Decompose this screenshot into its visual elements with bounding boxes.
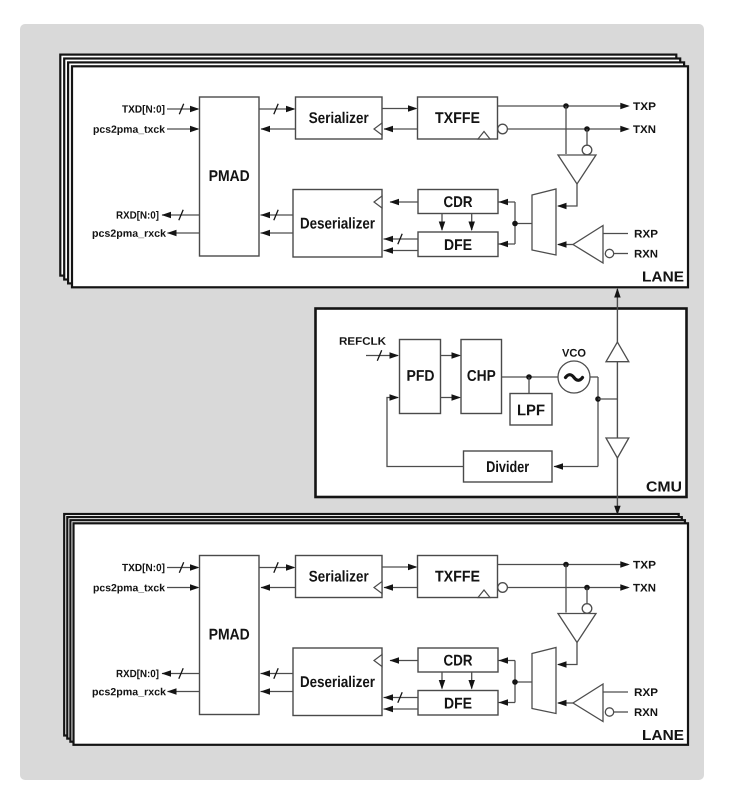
wire junction to clock trunk — [598, 398, 617, 400]
wire CDR to Deserializer clock (LANE1) — [390, 201, 418, 203]
node LPF tap — [526, 374, 532, 380]
wire RXN to rx bubble (LANE2) — [614, 711, 628, 713]
LANE2 stacked-card outline (back sheets) — [64, 514, 679, 736]
label TXN (LANE2) — [633, 584, 655, 592]
block CDR (LANE2) — [418, 648, 498, 672]
label TXP (LANE2) — [633, 561, 656, 569]
wire into CDR (LANE2) — [499, 660, 516, 662]
block TXFFE (LANE2) — [418, 556, 498, 598]
label pcs2pma_txck input (LANE2) — [94, 584, 165, 594]
wire CHP to VCO — [502, 376, 559, 378]
sine symbol inside VCO — [566, 375, 583, 381]
inversion bubble on loopback buffer input (LANE2) — [582, 604, 592, 614]
label RXD[N:0] output (LANE2) — [117, 670, 159, 680]
label TXP (LANE1) — [633, 102, 656, 110]
wire clock trunk CMU to both lanes — [616, 289, 618, 514]
rx input buffer (left triangle, LANE2) — [573, 684, 603, 722]
oscillator VCO circle — [558, 361, 590, 393]
clock buffer down triangle — [606, 438, 629, 458]
LANE1 stacked-card outline (back sheets) — [60, 55, 676, 276]
arrow clock trunk to bottom lane — [614, 506, 621, 516]
node TXN feedback tap (LANE1) — [584, 126, 590, 132]
wire pcs2pma_txck to PMAD (LANE1) — [167, 128, 198, 130]
wire TXP tap down to loopback buffer (LANE2) — [565, 565, 567, 613]
inversion bubble on TXFFE output (LANE1) — [498, 124, 508, 134]
label RXN (LANE1) — [635, 250, 657, 258]
wire PMAD to Serializer (LANE2) — [259, 567, 294, 569]
node mux output junction (LANE1) — [512, 221, 518, 227]
clock buffer up triangle — [606, 342, 629, 362]
block Serializer (LANE1) — [296, 97, 383, 139]
loopback buffer (down triangle, LANE2) — [558, 614, 596, 643]
block CDR (LANE1) — [418, 190, 498, 214]
wire VCO output right — [590, 376, 598, 378]
block Divider — [464, 451, 553, 482]
block TXFFE (LANE1) — [418, 97, 498, 139]
wire PFD to CHP lower — [441, 397, 460, 399]
mux rx-select (LANE2) — [532, 648, 556, 714]
clock input marker on Deserializer (LANE1) — [374, 196, 382, 208]
clock input marker on TXFFE (LANE1) — [478, 132, 490, 140]
inversion bubble on RXN input (LANE1) — [605, 249, 613, 257]
wire VCO output down to divider level — [597, 377, 599, 467]
label REFCLK — [340, 337, 386, 345]
label pcs2pma_txck input (LANE1) — [94, 125, 165, 135]
label RXD[N:0] output (LANE1) — [117, 211, 159, 221]
arrow clock trunk to top lane — [614, 288, 621, 298]
clock input marker on Deserializer (LANE2) — [374, 655, 382, 667]
rx input buffer (left triangle, LANE1) — [573, 226, 603, 264]
wire Serializer to PMAD clock (LANE1) — [261, 128, 295, 130]
node clock branch junction — [595, 396, 601, 402]
wire into DFE (LANE1) — [499, 243, 516, 245]
wire DFE to Deserializer second (LANE2) — [384, 708, 419, 710]
label TXD[N:0] input (LANE2) — [122, 564, 164, 574]
wire pcs2pma_txck to PMAD (LANE2) — [167, 587, 198, 589]
block PFD — [400, 340, 441, 414]
wire CDR to DFE right (LANE2) — [471, 672, 473, 689]
wire mux output split to CDR and DFE (LANE1) — [514, 202, 516, 244]
wire tap down to LPF — [528, 377, 530, 394]
clock input marker on Serializer (LANE2) — [374, 582, 382, 594]
wire PMAD to RXD[N:0] (LANE2) — [162, 673, 200, 675]
label LANE (LANE1) — [643, 272, 683, 282]
clock input marker on TXFFE (LANE2) — [478, 590, 490, 598]
loopback buffer (down triangle, LANE1) — [558, 155, 596, 184]
wire loopback buffer to mux (LANE1) — [558, 184, 577, 206]
inversion bubble on TXFFE output (LANE2) — [498, 583, 508, 593]
label TXD[N:0] input (LANE1) — [122, 105, 164, 115]
wire Deserializer to PMAD rxck (LANE1) — [261, 232, 294, 234]
wire TXN line (LANE1) — [507, 128, 628, 130]
wire PMAD to pcs2pma_rxck (LANE1) — [168, 232, 200, 234]
wire PMAD to pcs2pma_rxck (LANE2) — [168, 691, 200, 693]
label VCO — [562, 349, 585, 357]
wire DFE to Deserializer data (LANE1) — [384, 238, 419, 240]
wire Serializer to TXFFE (LANE1) — [382, 108, 416, 110]
wire Serializer to PMAD clock (LANE2) — [261, 587, 295, 589]
wire TXFFE to TXP pad (LANE1) — [498, 105, 629, 107]
LANE2 front sheet — [74, 523, 689, 745]
wire TXP tap down to loopback buffer (LANE1) — [565, 106, 567, 154]
wire mux output (LANE1) — [515, 223, 532, 225]
wire Divider feedback to PFD — [387, 398, 464, 467]
block Deserializer (LANE1) — [293, 190, 382, 258]
label pcs2pma_rxck output (LANE1) — [93, 229, 166, 239]
clock input marker on Serializer (LANE1) — [374, 123, 382, 135]
wire Deserializer to PMAD rxck (LANE2) — [261, 691, 294, 693]
block DFE (LANE2) — [418, 691, 498, 716]
wire rx buffer to mux (LANE2) — [558, 702, 573, 704]
label LANE (LANE2) — [643, 730, 683, 740]
wire TXFFE to Serializer clock (LANE1) — [384, 128, 418, 130]
LANE1 front sheet — [72, 66, 688, 287]
wire TXN tap down to loopback bubble (LANE1) — [586, 129, 588, 145]
wire RXP to rx buffer (LANE2) — [603, 691, 628, 693]
mux rx-select (LANE1) — [532, 189, 556, 255]
wire loopback buffer to mux (LANE2) — [558, 643, 577, 665]
wire TXFFE to Serializer clock (LANE2) — [384, 587, 418, 589]
wire DFE to Deserializer data (LANE2) — [384, 697, 419, 699]
wire TXN line (LANE2) — [507, 587, 628, 589]
label TXN (LANE1) — [633, 125, 655, 133]
wire PMAD to Serializer (LANE1) — [259, 108, 294, 110]
label CMU — [647, 481, 681, 491]
wire into DFE (LANE2) — [499, 702, 516, 704]
wire to Divider input — [554, 466, 598, 468]
block CHP — [461, 340, 502, 414]
wire TXD[N:0] to PMAD (LANE2) — [167, 567, 198, 569]
label pcs2pma_rxck output (LANE2) — [93, 688, 166, 698]
wire TXFFE to TXP pad (LANE2) — [498, 564, 629, 566]
wire mux output (LANE2) — [515, 681, 532, 683]
wire RXN to rx bubble (LANE1) — [614, 253, 628, 255]
wire Serializer to TXFFE (LANE2) — [382, 566, 416, 568]
wire mux output split to CDR and DFE (LANE2) — [514, 661, 516, 703]
inversion bubble on RXN input (LANE2) — [605, 708, 613, 716]
node TXN feedback tap (LANE2) — [584, 585, 590, 591]
block Serializer (LANE2) — [296, 556, 383, 598]
wire Deserializer to PMAD RXD (LANE1) — [261, 214, 294, 216]
block PMAD (LANE2) — [200, 556, 260, 715]
label RXN (LANE2) — [635, 708, 657, 716]
wire REFCLK to PFD — [366, 355, 398, 357]
wire PFD to CHP upper — [441, 355, 460, 357]
wire rx buffer to mux (LANE1) — [558, 244, 573, 246]
node TXP feedback tap (LANE2) — [563, 562, 569, 568]
wire Deserializer to PMAD RXD (LANE2) — [261, 673, 294, 675]
wire CDR to Deserializer clock (LANE2) — [390, 660, 418, 662]
wire PMAD to RXD[N:0] (LANE1) — [162, 214, 200, 216]
wire CDR to DFE left (LANE1) — [441, 214, 443, 231]
inversion bubble on loopback buffer input (LANE1) — [582, 145, 592, 155]
block LPF — [510, 394, 552, 426]
wire CDR to DFE right (LANE1) — [471, 214, 473, 231]
wire TXN tap down to loopback bubble (LANE2) — [586, 588, 588, 604]
block Deserializer (LANE2) — [293, 648, 382, 716]
block PMAD (LANE1) — [200, 97, 260, 256]
wire RXP to rx buffer (LANE1) — [603, 233, 628, 235]
node mux output junction (LANE2) — [512, 679, 518, 685]
wire into CDR (LANE1) — [499, 201, 516, 203]
wire CDR to DFE left (LANE2) — [441, 672, 443, 689]
CMU outline box — [316, 309, 687, 498]
label RXP (LANE1) — [635, 230, 658, 238]
block DFE (LANE1) — [418, 232, 498, 257]
wire DFE to Deserializer second (LANE1) — [384, 250, 419, 252]
node TXP feedback tap (LANE1) — [563, 103, 569, 109]
wire TXD[N:0] to PMAD (LANE1) — [167, 108, 198, 110]
label RXP (LANE2) — [635, 688, 658, 696]
